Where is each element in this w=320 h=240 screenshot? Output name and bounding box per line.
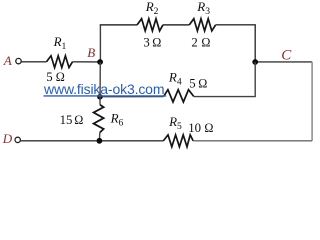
svg-text:R1: R1 [53, 34, 67, 52]
svg-text:Ω: Ω [152, 36, 161, 50]
wire right vertical [311, 62, 313, 141]
svg-text:R6: R6 [110, 111, 124, 129]
resistor R4 [164, 90, 194, 102]
resistor R3 [189, 19, 215, 31]
svg-text:R3: R3 [196, 0, 210, 17]
wire C junction to right edge [255, 61, 312, 63]
svg-text:15: 15 [60, 113, 73, 127]
svg-text:R4: R4 [168, 70, 182, 88]
svg-text:5: 5 [189, 76, 195, 90]
terminal D circle [15, 137, 20, 142]
svg-text:C: C [281, 48, 292, 64]
wire R6 to bottom rail [98, 133, 100, 141]
svg-text:Ω: Ω [74, 113, 83, 127]
wire C junction down to middle rail [194, 62, 256, 97]
svg-text:Ω: Ω [201, 36, 210, 50]
svg-text:R2: R2 [145, 0, 159, 17]
wire A terminal to R1 [21, 61, 46, 63]
wire top rail right and corner down to C junction [216, 25, 256, 62]
wire B riser to top rail [99, 25, 101, 62]
node junction dot at R6 / bottom rail [97, 138, 103, 144]
svg-text:3: 3 [143, 36, 149, 50]
wire D terminal to R5 [20, 140, 163, 142]
svg-text:Ω: Ω [204, 121, 213, 135]
node B junction dot [97, 59, 103, 65]
wire top rail left [100, 24, 137, 26]
svg-text:2: 2 [191, 36, 197, 50]
svg-text:10: 10 [188, 121, 201, 135]
wire R5 to bottom right corner [193, 140, 312, 142]
svg-text:www.fisika-ok3.com: www.fisika-ok3.com [43, 81, 165, 97]
resistor R6 (vertical) [94, 105, 104, 133]
svg-text:B: B [87, 45, 95, 60]
wire R4 to B riser [100, 96, 164, 98]
resistor R1 [47, 56, 73, 68]
wire B node down to R6 [99, 62, 101, 105]
resistor R5 [163, 135, 193, 147]
svg-text:A: A [3, 53, 12, 68]
node C junction dot [252, 59, 258, 65]
terminal A circle [16, 58, 21, 63]
watermark underline [44, 95, 167, 97]
wire R1 to node B [73, 61, 101, 63]
svg-text:Ω: Ω [198, 76, 207, 90]
resistor R2 [137, 19, 163, 31]
svg-text:R5: R5 [168, 114, 182, 132]
svg-text:D: D [2, 131, 13, 146]
wire R2 to R3 [163, 24, 189, 26]
node junction dot at B riser / middle rail [97, 94, 103, 100]
